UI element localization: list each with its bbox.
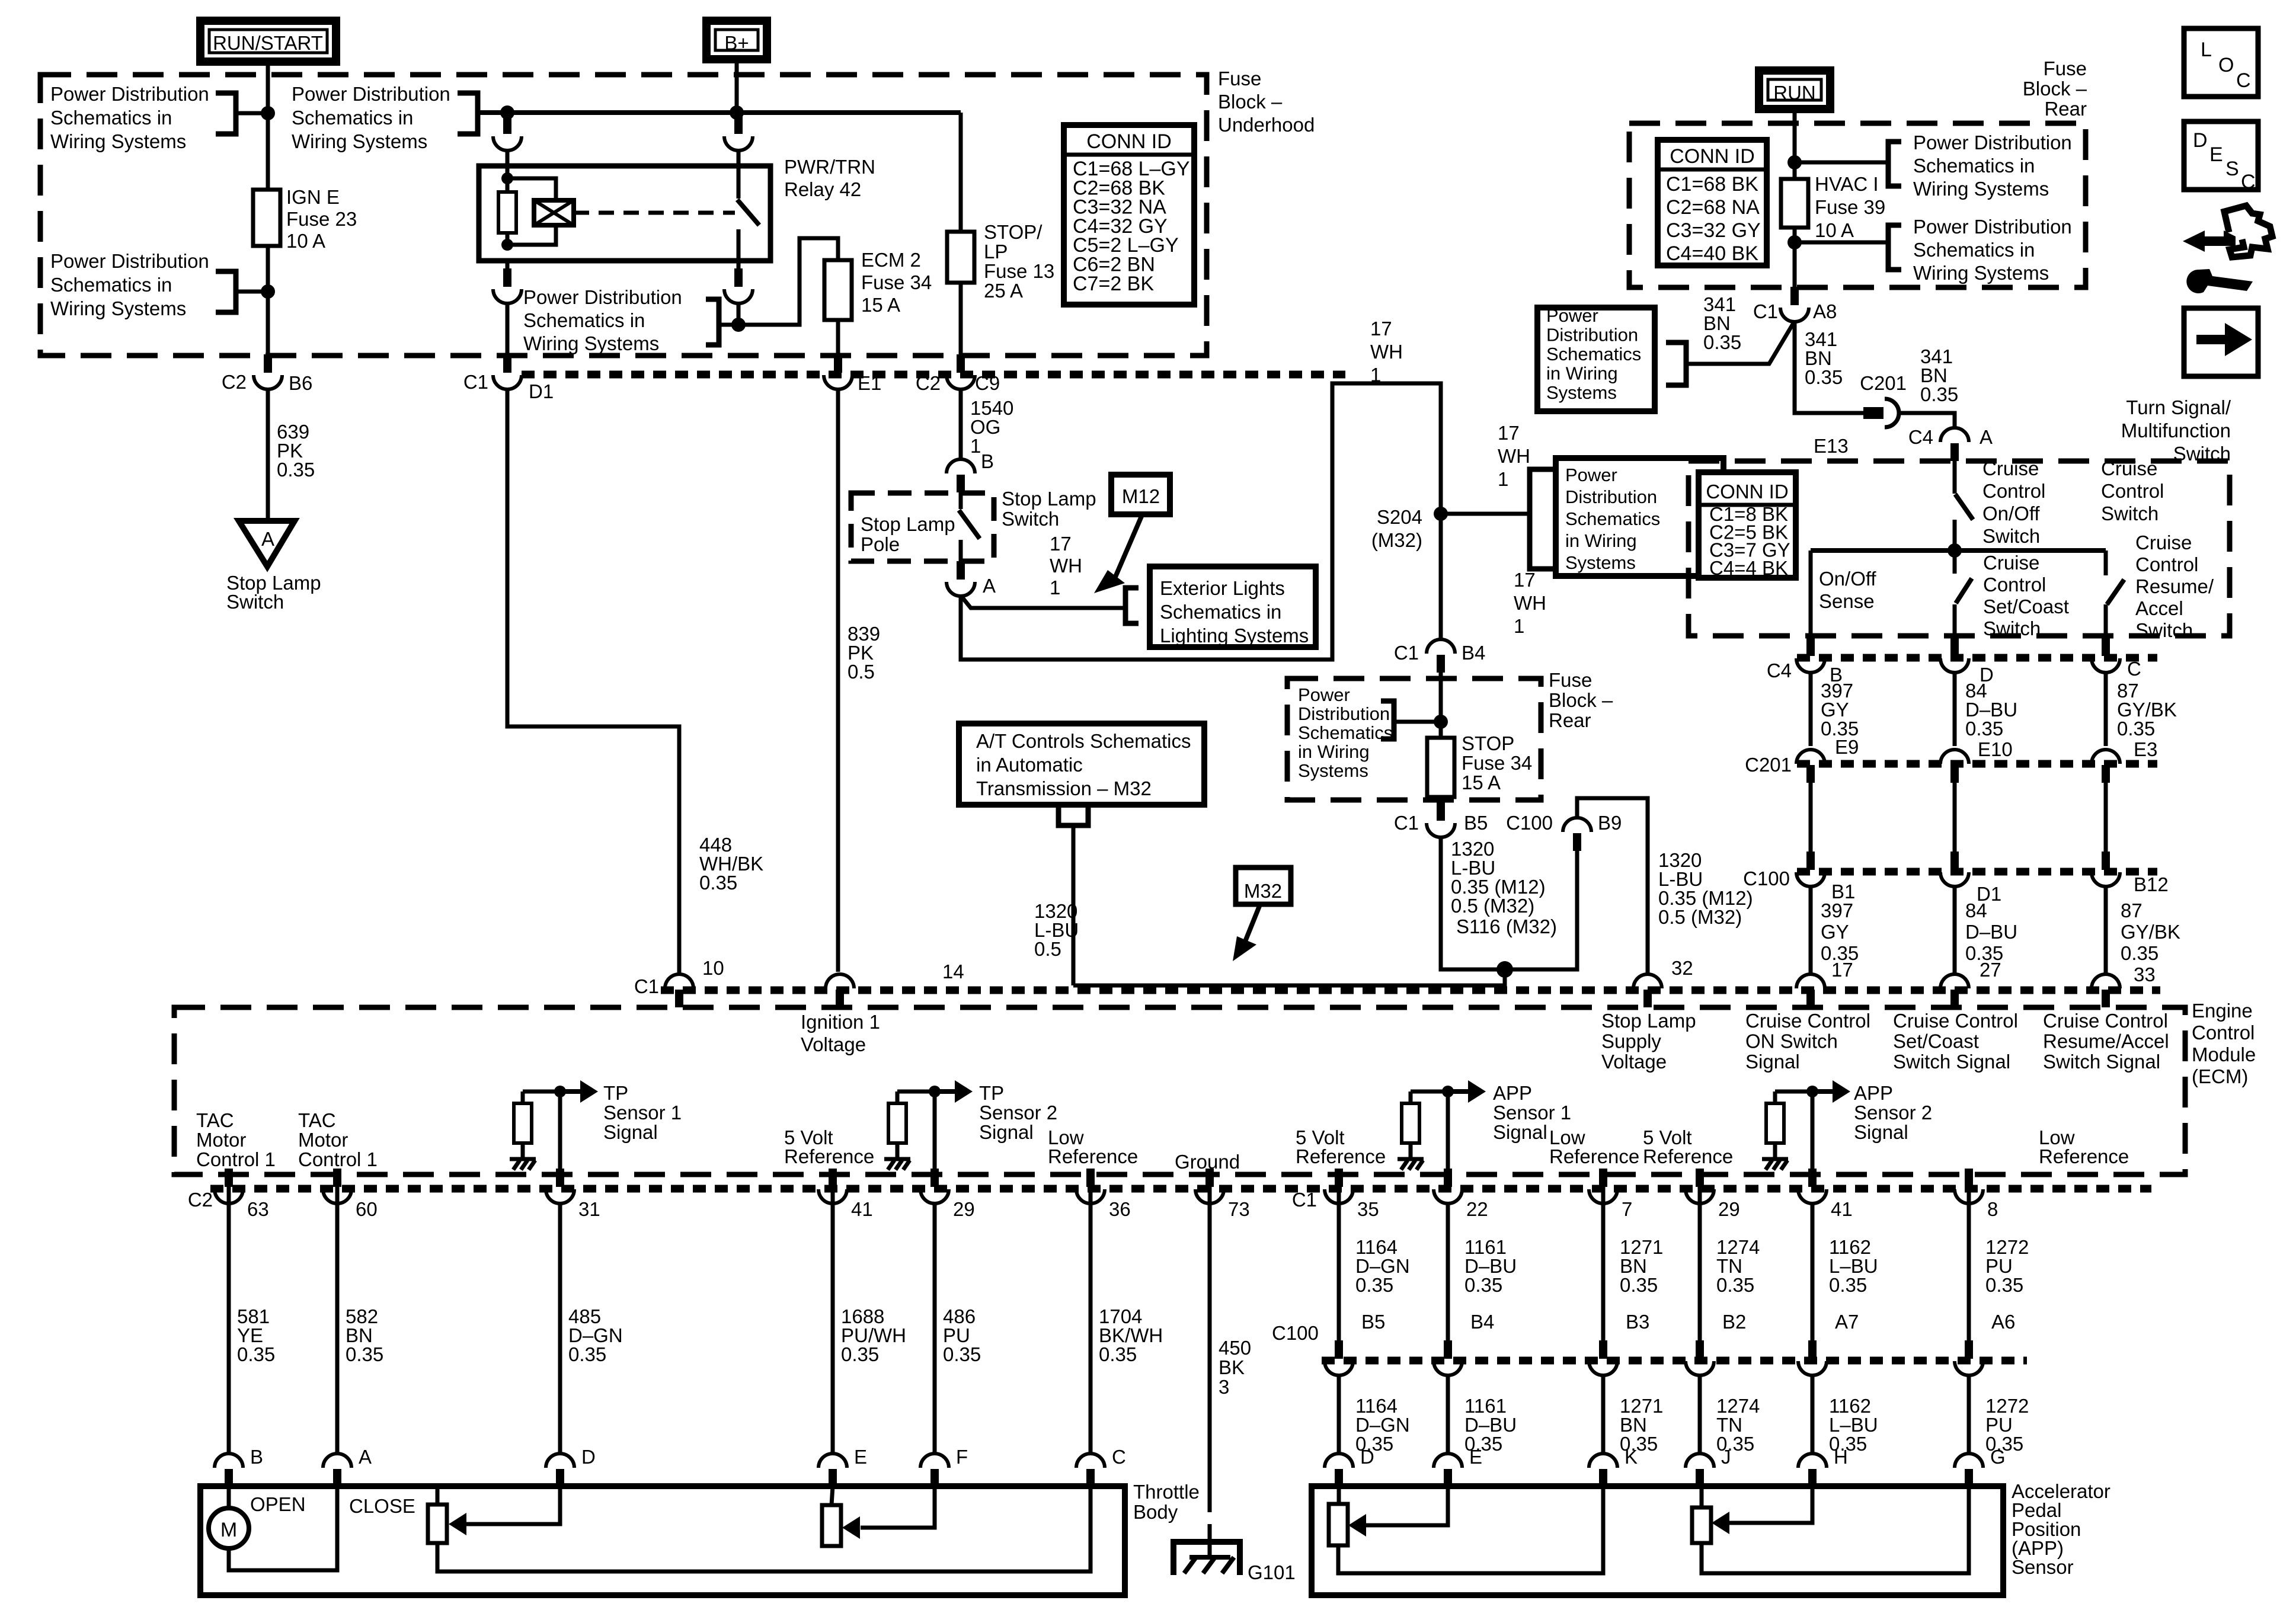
svg-text:C4: C4 [1767,660,1792,681]
svg-text:S116 (M32): S116 (M32) [1456,916,1557,937]
wire bracket1 to RUN/START wire [236,111,268,116]
bracket power distribution 4 [706,299,719,345]
svg-text:C100: C100 [1272,1322,1319,1344]
connector A stop lamp switch [957,561,965,580]
svg-text:10 A: 10 A [286,230,325,252]
svg-text:A8: A8 [1813,300,1837,322]
svg-text:0.5 (M32): 0.5 (M32) [1451,895,1534,917]
cruise set/coast switch blade [1956,578,1972,603]
svg-text:A: A [983,575,996,597]
svg-text:27: 27 [1980,959,2001,981]
wire 450 BK lower stub [1208,1524,1212,1558]
svg-text:Control 1: Control 1 [196,1148,276,1170]
wire ECM pin 2259 stub [1337,1170,1341,1203]
svg-text:41: 41 [1831,1198,1853,1220]
tag box M12 [1111,475,1170,514]
svg-text:B2: B2 [1722,1311,1746,1333]
svg-text:Power Distribution: Power Distribution [523,286,682,308]
junction B+ relay switch feed [730,105,744,120]
ECM pin 32 [1633,974,1662,988]
potentiometer TP sensor 1 [428,1505,447,1543]
wire to bracket rear1b [1795,241,1888,245]
svg-text:Set/Coast: Set/Coast [1983,596,2069,617]
svg-text:Block –: Block – [1218,91,1283,113]
ECM pin 14 [826,974,854,988]
wire J to APP pot2 top [1700,1486,1704,1507]
wire ECM pin 3322 stub [1967,1170,1971,1203]
legend icon arrow box [2184,308,2258,376]
connector row C100 [1797,868,2157,876]
wire E to APP1 wiper [1366,1486,1448,1525]
connector APP sensor H [1798,1454,1827,1468]
wire to ECM2 fuse [738,238,838,325]
svg-text:K: K [1625,1446,1638,1468]
svg-text:A: A [359,1446,372,1468]
wire to solenoid top [507,178,556,200]
wire bus to set/coast switch [1953,550,1957,574]
wire 639 PK [266,390,270,520]
fuse IGN E Fuse 23 10A [253,190,280,246]
connector APP sensor J [1686,1454,1714,1468]
connector row C201 [1797,760,2157,768]
svg-text:B3: B3 [1626,1311,1649,1333]
wire ECM pin 2041 stub [1208,1170,1212,1203]
svg-text:Fuse: Fuse [1218,68,1261,89]
bracket power distribution 2 [458,93,478,134]
ECM pin 27 [1940,974,1969,988]
arrow M32 to wire [1245,906,1259,943]
svg-text:0.35: 0.35 [1920,383,1958,405]
wire 486 PU [933,1203,937,1455]
svg-text:Signal: Signal [1493,1121,1547,1143]
relay switch blade [737,200,759,225]
connector APP sensor G [1955,1454,1983,1468]
junction relay coil feed [500,105,514,120]
svg-text:Cruise: Cruise [2101,457,2157,479]
svg-text:Switch: Switch [2135,619,2193,641]
svg-text:10 A: 10 A [1815,219,1854,241]
wire 1320 L-BU B5 to B9 [1441,837,1577,969]
internal circuit TP sensor 2 signal [897,1090,935,1094]
svg-text:Power: Power [1565,465,1617,485]
svg-text:Switch: Switch [2101,502,2159,524]
connector ECM lower pin 41 [1808,1169,1817,1187]
internal circuit APP sensor 1 signal [1411,1090,1448,1094]
junction stop fuse feed [1434,715,1448,729]
wire on/off switch to bus [1953,520,1957,550]
svg-text:Power Distribution: Power Distribution [1913,216,2072,238]
junction HVAC bottom [1787,235,1802,249]
svg-text:Reference: Reference [1048,1145,1138,1167]
wire ECM pin 386 stub [227,1170,231,1203]
svg-text:D: D [581,1446,596,1468]
svg-text:A: A [1980,426,1993,448]
connector APP sensor K [1589,1454,1617,1468]
svg-text:3: 3 [1219,1376,1229,1398]
inline connector C201 [1863,407,1884,419]
wire coil bottom [506,233,510,245]
svg-text:Fuse: Fuse [2044,57,2087,79]
svg-text:C2=68 NA: C2=68 NA [1666,196,1760,219]
svg-text:87: 87 [2121,900,2142,921]
legend icon LOC box [2184,28,2258,97]
svg-text:Cruise Control: Cruise Control [1893,1010,2018,1032]
svg-text:D1: D1 [1977,883,2001,905]
bracket power distribution rear2 [1381,701,1394,739]
connector E1 [834,354,842,373]
wire bracket rear2 [1394,720,1441,724]
svg-text:29: 29 [953,1198,975,1220]
svg-text:D–BU: D–BU [1965,921,2017,943]
svg-text:WH: WH [1514,592,1546,614]
bracket power distribution A8 [1666,343,1686,385]
svg-text:0.35: 0.35 [1805,366,1843,388]
svg-text:On/Off: On/Off [1982,502,2040,524]
wire APP pot2 bottom to G [1702,1486,1969,1573]
potentiometer APP sensor 1 [1329,1504,1348,1545]
svg-text:C201: C201 [1745,754,1792,776]
ground G101 symbol [1173,1542,1240,1575]
svg-text:Wiring Systems: Wiring Systems [523,332,659,354]
svg-text:Lighting Systems: Lighting Systems [1160,625,1309,646]
internal ground APP sensor 2 signal [1762,1157,1788,1161]
svg-text:Voltage: Voltage [1601,1051,1667,1073]
svg-text:Systems: Systems [1565,552,1636,573]
svg-text:E: E [854,1446,867,1468]
svg-text:A/T Controls Schematics: A/T Controls Schematics [976,730,1191,752]
bus B+ horizontal [478,110,961,115]
stop lamp pole dashed box [851,493,994,561]
svg-text:Schematics: Schematics [1565,508,1660,529]
svg-text:Pole: Pole [861,533,900,555]
wire B4 to STOP fuse [1439,673,1443,738]
svg-text:B+: B+ [724,32,749,54]
connector C100 pin B4 [1444,1340,1452,1359]
wire APP sensor 1 signal signal to pin [1446,1092,1450,1170]
svg-text:0.35: 0.35 [841,1343,879,1365]
svg-text:0.5: 0.5 [1034,938,1061,960]
svg-text:C: C [2236,69,2251,92]
svg-text:WH: WH [1050,555,1082,577]
svg-text:60: 60 [356,1198,378,1220]
wire pot bottoms to C [437,1486,1091,1571]
svg-text:BK: BK [1219,1356,1245,1378]
connector C100 pin B1 [1806,852,1815,870]
svg-text:STOP: STOP [1462,732,1514,754]
svg-text:ECM 2: ECM 2 [861,249,921,271]
wire S116 to A/T controls [1073,969,1505,985]
svg-text:Cruise Control: Cruise Control [2043,1010,2168,1032]
connector C100 pin B5 [1335,1340,1343,1359]
wire E to TP pot2 top [832,1486,833,1505]
wire into relay switch [737,150,741,168]
resistor relay coil suppression [498,192,516,233]
svg-text:ON Switch: ON Switch [1745,1030,1838,1052]
svg-text:17: 17 [1370,318,1392,340]
svg-text:(ECM): (ECM) [2192,1065,2248,1087]
wire 1161 upper [1446,1203,1450,1340]
arrowhead TP2 wiper [842,1516,860,1539]
svg-text:Reference: Reference [2039,1145,2129,1167]
svg-text:36: 36 [1109,1198,1131,1220]
connector relay switch pin top [734,116,743,134]
connector throttle body D [546,1454,574,1468]
svg-text:Power Distribution: Power Distribution [1913,132,2072,153]
accelerator pedal position sensor box [1312,1486,2003,1595]
legend icon DESC box [2184,121,2258,190]
svg-text:Accel: Accel [2135,597,2183,619]
svg-text:0.35: 0.35 [1985,1274,2023,1296]
wire relay coil to C1 D1 [506,303,510,354]
svg-text:E9: E9 [1835,736,1859,758]
arrow M12 to wire [1114,515,1142,580]
wire 1274 upper [1698,1203,1702,1340]
connector C100 pin B12 [2102,852,2110,870]
wire to bracket rear1a [1795,161,1888,165]
svg-text:B5: B5 [1361,1311,1385,1333]
svg-text:WH: WH [1370,341,1403,363]
relay actuation dashed link [574,211,735,215]
stop lamp switch blade [959,510,980,539]
cruise resume/accel switch blade [2107,580,2124,604]
ECM pin 17 [1796,974,1825,988]
conn id table turn signal switch [1699,472,1796,578]
conn id table underhood [1064,125,1194,305]
svg-text:TAC: TAC [298,1109,336,1131]
wire 17 WH to S204 [961,383,1441,660]
svg-text:Power Distribution: Power Distribution [50,83,209,105]
svg-text:0.35: 0.35 [2121,942,2159,964]
svg-text:Schematics: Schematics [1298,722,1393,743]
svg-text:Switch: Switch [226,591,284,613]
wire bracket3 [236,290,268,294]
svg-text:Sense: Sense [1819,590,1875,612]
potentiometer APP sensor 2 [1692,1507,1711,1543]
svg-text:0.35: 0.35 [346,1343,383,1365]
svg-text:O: O [2218,54,2234,76]
svg-text:D: D [1360,1446,1374,1468]
svg-text:WH: WH [1498,445,1530,467]
svg-text:15 A: 15 A [861,294,900,316]
svg-text:Block –: Block – [1549,689,1613,711]
ECM lower connector row [210,1185,2151,1193]
connector ECM lower pin 41 [829,1169,837,1187]
ECM pin 10 [665,974,693,988]
svg-text:0.35: 0.35 [277,459,315,481]
svg-text:Underhood: Underhood [1218,114,1315,136]
cruise on/off switch blade [1955,494,1973,520]
svg-text:0.35: 0.35 [1716,1274,1754,1296]
svg-text:Schematics in: Schematics in [1160,601,1281,623]
svg-text:B4: B4 [1462,642,1485,664]
svg-text:C2: C2 [188,1189,213,1211]
svg-text:Schematics in: Schematics in [1913,239,2035,261]
svg-text:Schematics in: Schematics in [523,309,645,331]
svg-text:Cruise: Cruise [1982,457,2039,479]
svg-text:C100: C100 [1743,868,1790,889]
svg-text:C1=68 BK: C1=68 BK [1666,173,1758,196]
resistor pull-down TP sensor 1 signal [514,1103,532,1143]
svg-text:C2: C2 [222,371,247,393]
svg-text:C1: C1 [1292,1189,1317,1211]
resistor pull-down APP sensor 1 signal [1402,1103,1419,1143]
svg-text:C9: C9 [975,372,1000,394]
svg-text:D1: D1 [529,380,554,402]
svg-text:Cruise Control: Cruise Control [1745,1010,1870,1032]
svg-text:Stop Lamp: Stop Lamp [861,513,955,535]
svg-text:Reference: Reference [1549,1145,1639,1167]
svg-text:TP: TP [603,1082,628,1104]
conn id table rear [1658,140,1767,265]
junction on/off sense bus [1948,543,1962,558]
junction bracket 3 [261,284,275,299]
wire C100 to ECM at 3298 [1953,886,1957,973]
svg-text:C2: C2 [916,372,941,394]
svg-text:450: 450 [1219,1337,1251,1359]
bracket power distribution rear1a [1888,142,1901,186]
wire stop fuse to B5 [1439,797,1443,802]
connector relay coil pin bottom [503,268,511,287]
wire ECM pin 1840 stub [1089,1170,1093,1203]
svg-text:Transmission – M32: Transmission – M32 [976,777,1152,799]
fuse block underhood connector face row [522,371,1345,379]
svg-text:Fuse 13: Fuse 13 [984,260,1054,282]
svg-text:(M32): (M32) [1371,529,1422,551]
fuse block rear 2 dashed box [1287,678,1541,800]
svg-text:J: J [1721,1446,1731,1468]
svg-text:Switch: Switch [1983,617,2041,639]
svg-text:15 A: 15 A [1462,772,1501,793]
svg-text:RUN/START: RUN/START [213,32,323,54]
splice S116 [1496,961,1513,978]
wire IGN E fuse to C2 B6 [266,246,270,354]
svg-text:31: 31 [578,1198,600,1220]
internal ground TP sensor 2 signal [884,1157,910,1161]
svg-text:0.35: 0.35 [1965,718,2003,740]
wire S204 branch [1441,512,1530,516]
svg-text:TAC: TAC [196,1109,234,1131]
ECM pin 33 [2092,974,2120,988]
svg-text:B6: B6 [289,372,312,394]
connector throttle body A [323,1454,351,1468]
fuse block - underhood dashed outline [40,75,1207,356]
svg-text:D: D [2193,129,2208,152]
svg-text:Stop Lamp: Stop Lamp [1002,488,1096,510]
svg-text:LP: LP [984,241,1008,263]
connector ECM lower pin 29 [1696,1169,1704,1187]
svg-text:Sensor 2: Sensor 2 [1854,1102,1932,1124]
connector APP sensor E [1434,1454,1462,1468]
svg-text:Switch Signal: Switch Signal [2043,1051,2160,1073]
svg-text:C1: C1 [634,975,659,997]
svg-text:Fuse 34: Fuse 34 [861,271,932,293]
wire D to APP pot1 top [1337,1486,1341,1504]
svg-text:Power Distribution: Power Distribution [50,250,209,272]
wire ECM pin 569 stub [335,1170,340,1203]
wire D to TP1 wiper [466,1486,560,1524]
svg-text:M12: M12 [1122,485,1160,507]
junction TP sensor 1 signal [554,1086,566,1097]
wire A into switch [1953,461,1957,494]
svg-text:17: 17 [1050,533,1072,555]
svg-text:CONN ID: CONN ID [1086,130,1172,153]
wire 485 D–GN [558,1203,562,1455]
svg-text:CLOSE: CLOSE [349,1495,415,1517]
svg-text:Systems: Systems [1546,382,1617,403]
svg-text:0.35: 0.35 [2117,718,2155,740]
svg-text:Cruise: Cruise [1983,552,2039,574]
svg-text:Switch: Switch [1002,508,1059,530]
wire B to motor [227,1486,231,1508]
svg-text:L: L [2201,39,2212,61]
svg-text:41: 41 [851,1198,873,1220]
connector C201 pin E9 [1796,750,1825,764]
svg-text:0.35: 0.35 [943,1343,981,1365]
splice S204 [1434,507,1448,521]
connector C100 pin D1 [1950,852,1959,870]
wire 17 WH to exterior lights [961,596,1125,608]
svg-text:A: A [261,528,274,550]
power tag RUN/START [200,21,336,62]
svg-text:M32: M32 [1244,880,1282,902]
svg-text:8: 8 [1987,1198,1998,1220]
svg-text:Schematics in: Schematics in [292,107,413,129]
svg-text:Sensor 1: Sensor 1 [603,1102,682,1124]
wire RUN/START to IGN E fuse [266,66,270,190]
connector C100 B9 [1563,818,1591,832]
svg-text:35: 35 [1357,1198,1379,1220]
svg-text:B9: B9 [1598,812,1622,834]
connector C1 A8 [1790,287,1799,305]
wire 341 BN down to C201 [1795,321,1863,413]
connector row C100 lower [1322,1357,2027,1365]
wire C201 to C100 at 3055 [1809,783,1813,852]
arrow APP sensor 1 signal [1448,1089,1469,1094]
wire F to TP2 wiper [861,1486,935,1528]
svg-text:32: 32 [1671,957,1693,979]
svg-text:Control: Control [1983,574,2046,596]
svg-text:APP: APP [1493,1082,1532,1104]
junction coil bottom [501,239,513,251]
svg-text:Signal: Signal [1854,1121,1908,1143]
svg-text:73: 73 [1228,1198,1250,1220]
wire 1704 BK/WH [1089,1203,1093,1455]
throttle motor M [209,1508,249,1548]
svg-text:E3: E3 [2134,738,2157,760]
svg-text:H: H [1834,1446,1848,1468]
connector ECM lower pin 35 [1335,1169,1343,1187]
internal ground APP sensor 1 signal [1398,1157,1424,1161]
svg-text:Schematics: Schematics [1546,344,1641,364]
svg-text:TP: TP [979,1082,1004,1104]
wire 1164 upper [1337,1203,1341,1340]
wire on/off sense to B [1809,550,1813,638]
svg-text:0.35: 0.35 [1464,1274,1502,1296]
svg-text:Motor: Motor [196,1129,246,1151]
wire 581 YE [227,1203,231,1455]
svg-text:0.5 (M32): 0.5 (M32) [1658,906,1742,928]
svg-text:Module: Module [2192,1044,2256,1065]
wire HVAC fuse down [1793,228,1797,287]
svg-text:1: 1 [970,435,981,457]
svg-text:63: 63 [247,1198,269,1220]
wire 341 BN to power dist box [1686,321,1795,364]
fuse ECM 2 Fuse 34 15A [824,260,852,320]
wire ECM pin 2705 stub [1601,1170,1606,1203]
wire 582 BN [335,1203,340,1455]
svg-text:Switch Signal: Switch Signal [1893,1051,2010,1073]
svg-text:Fuse 39: Fuse 39 [1815,196,1885,218]
